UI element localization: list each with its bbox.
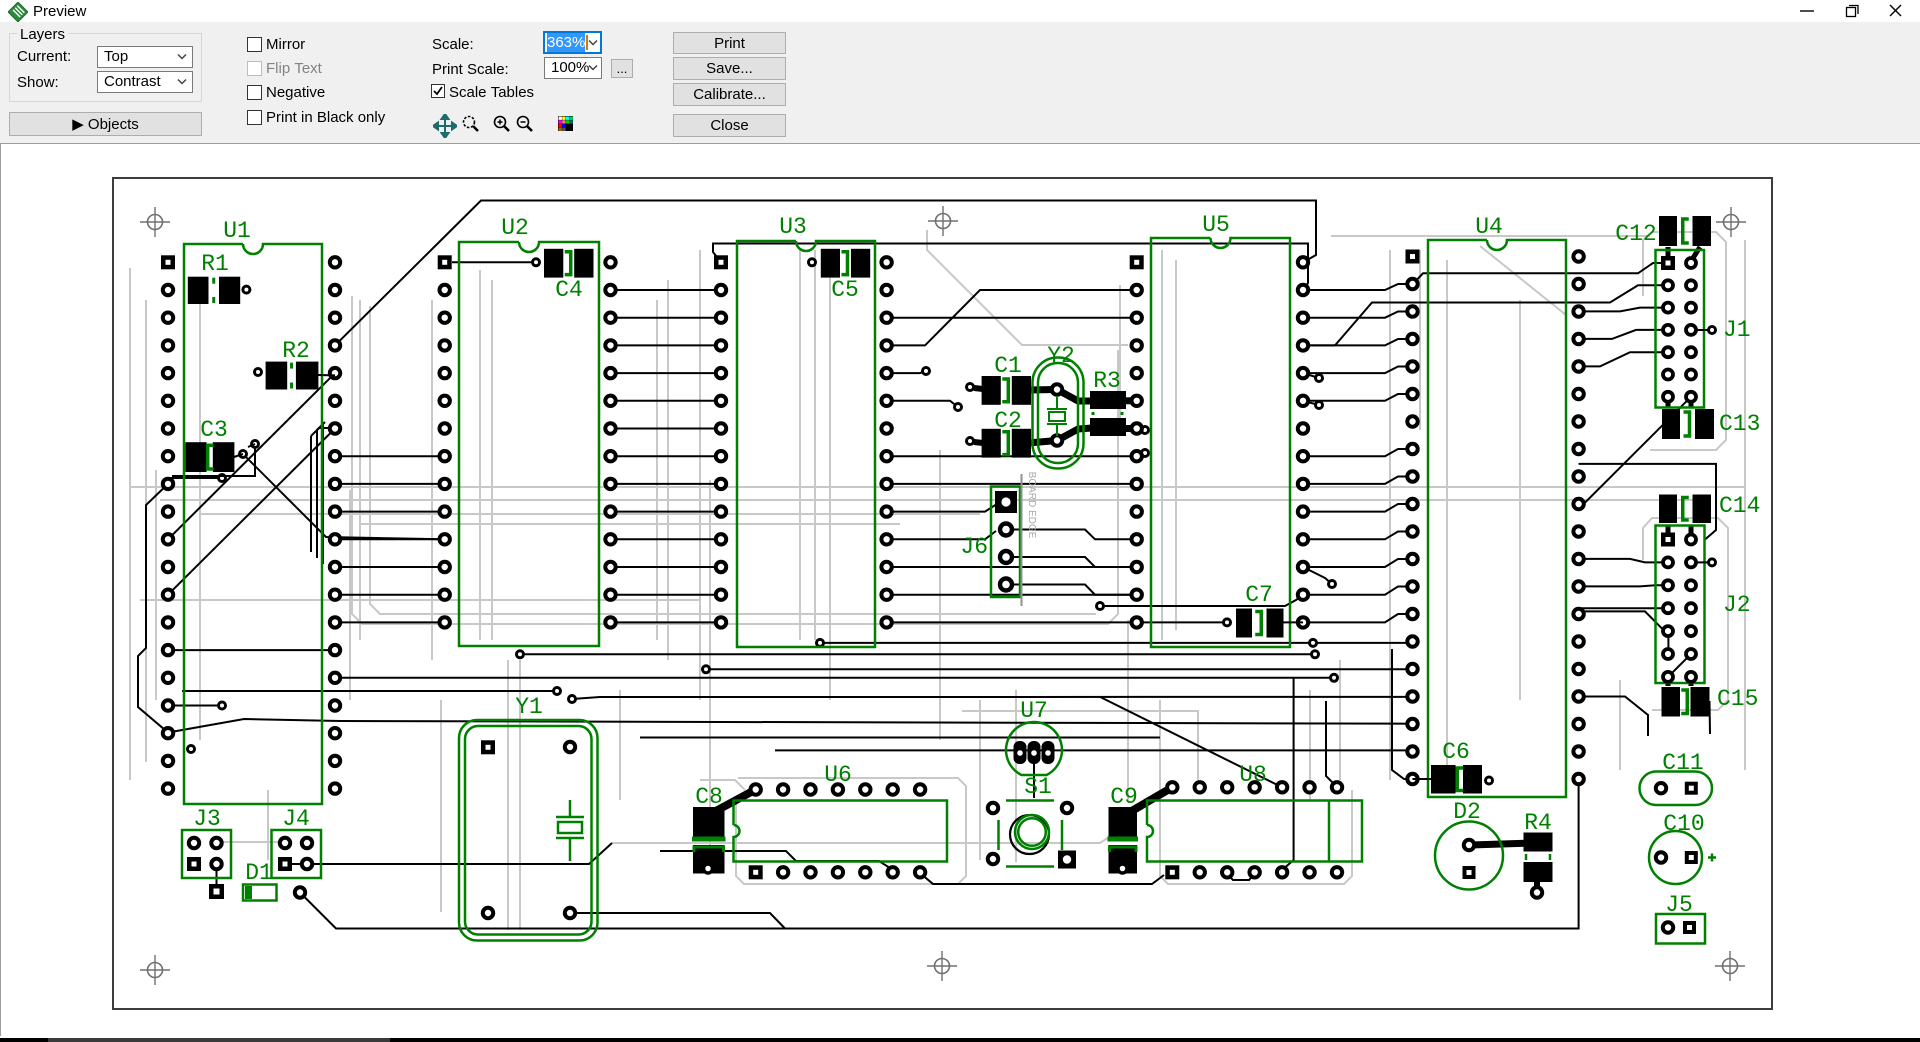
diode D2 bbox=[1435, 799, 1503, 890]
wire U8 bottom pads link bbox=[1227, 874, 1254, 880]
wire long bus row643 bbox=[817, 639, 1413, 646]
IC U6 pads bbox=[749, 784, 926, 879]
capacitor C6 bbox=[1413, 739, 1493, 794]
wire bottom layer J1 loop bbox=[1643, 232, 1726, 450]
crystal Y1 outline bbox=[459, 694, 598, 941]
svg-text:BOARD EDGE: BOARD EDGE bbox=[1026, 472, 1037, 539]
IC U8 inner divider bbox=[1328, 801, 1331, 861]
wire bottom layer J2 loop bbox=[1643, 518, 1728, 710]
connector J3 bbox=[182, 806, 231, 878]
svg-text:C6: C6 bbox=[1442, 739, 1470, 765]
connector J6 outline bbox=[960, 487, 1020, 598]
wire U3 top bus bbox=[713, 244, 1308, 291]
svg-text:C8: C8 bbox=[695, 784, 723, 810]
svg-text:J5: J5 bbox=[1665, 892, 1693, 918]
wire bottom layer U4 region verticals bbox=[1331, 236, 1650, 790]
bottom strip bbox=[0, 1036, 1920, 1038]
wire bottom layer mid horizontal bus bbox=[130, 487, 1745, 524]
wire thick C15 stubs bbox=[1668, 683, 1691, 686]
svg-text:C14: C14 bbox=[1719, 493, 1760, 519]
wire thick C14 stubs bbox=[1668, 525, 1691, 533]
wire J1 to U4 diagonal bbox=[1579, 397, 1691, 509]
svg-text:U4: U4 bbox=[1475, 214, 1503, 240]
window buttons bbox=[1795, 0, 1920, 22]
svg-text:U3: U3 bbox=[779, 214, 807, 240]
svg-text:S1: S1 bbox=[1024, 774, 1052, 800]
capacitor C4 bbox=[544, 249, 594, 303]
scale bbox=[432, 36, 474, 53]
wire bus row724 with left riser bbox=[138, 484, 1413, 733]
wire C5 stub bbox=[809, 259, 816, 266]
diode D1 bbox=[243, 860, 305, 901]
wire U1 to top bus diagonal bbox=[335, 201, 1316, 346]
wire thick C12 stubs bbox=[1668, 247, 1700, 258]
capacitor C8 bbox=[692, 784, 726, 874]
svg-text:J3: J3 bbox=[193, 806, 221, 832]
fiducial top-center bbox=[928, 206, 958, 236]
node BOARD EDGE marker bbox=[1022, 472, 1038, 606]
svg-text:R1: R1 bbox=[201, 251, 229, 277]
wire U4-J1 rows bbox=[1303, 263, 1668, 366]
svg-text:J1: J1 bbox=[1723, 317, 1751, 343]
wire bundle U2-U3 rows bbox=[611, 290, 722, 622]
wire U1 row14 link bbox=[168, 649, 335, 651]
wire bottom layer big mid loop bbox=[352, 296, 1118, 624]
capacitor C10 bbox=[1649, 811, 1716, 884]
wire bottom layer left horizontal bbox=[140, 599, 700, 601]
wire U4 left riser bbox=[1392, 649, 1413, 779]
crystal Y2 outline bbox=[1033, 343, 1084, 469]
fiducial bottom-left bbox=[140, 955, 170, 985]
connector J5 bbox=[1656, 892, 1705, 944]
wire C3 diagonal to U2 bbox=[243, 454, 445, 539]
wire bundle U5-U4 rows bbox=[1303, 284, 1413, 622]
title bar bbox=[0, 0, 1920, 22]
IC U8 pads bbox=[1165, 782, 1342, 879]
wire U6 interior bbox=[660, 851, 893, 872]
svg-text:J4: J4 bbox=[282, 806, 310, 832]
toolbar bbox=[0, 22, 1920, 144]
transistor U7 bbox=[1006, 698, 1062, 775]
wire bottom layer center verticals bbox=[927, 230, 1199, 862]
wire U7 center stub bbox=[1033, 762, 1035, 798]
wire bottom layer verticals under U5 bbox=[1162, 250, 1176, 640]
wire bus row750 bbox=[775, 749, 1413, 751]
IC U6 outline bbox=[734, 762, 948, 862]
IC U4 outline bbox=[1428, 214, 1566, 797]
wire bottom layer bottom right verticals bbox=[1160, 660, 1620, 884]
capacitor C3 bbox=[185, 417, 258, 472]
crystal Y2 symbol bbox=[1047, 396, 1067, 436]
node pad below J3 bbox=[209, 884, 224, 899]
svg-text:D1: D1 bbox=[245, 860, 273, 886]
connector J2 pads bbox=[1661, 533, 1716, 682]
wire bundle U3-U5 upper bbox=[887, 290, 1137, 345]
wire thick C9 to U8 pin1 bbox=[1130, 787, 1172, 812]
capacitor C7 bbox=[1224, 582, 1304, 638]
IC U2 pads bbox=[438, 255, 616, 627]
capacitor C1 bbox=[967, 353, 1032, 405]
svg-text:C5: C5 bbox=[831, 277, 859, 303]
wire bottom layer verticals U1-U2 bbox=[200, 300, 432, 740]
right buttons bbox=[673, 32, 786, 54]
wire U8 pin7 riser bbox=[1326, 701, 1337, 787]
wire thick C8 to U6 pin1 bbox=[714, 790, 756, 813]
wire U3-R3 row bbox=[887, 401, 962, 411]
svg-text:C3: C3 bbox=[200, 417, 228, 443]
resistor R3 bbox=[1090, 368, 1126, 436]
wire long bus row668 bbox=[703, 666, 1413, 673]
wire thick D2 to R4 bbox=[1471, 843, 1537, 889]
wire long bus row678 bbox=[335, 674, 1338, 681]
wire bus row737 bbox=[640, 737, 1160, 739]
connector J1 outline bbox=[1656, 250, 1751, 408]
wire left stubs U1 bbox=[168, 475, 226, 753]
wire bundle U3-U5 lower rows bbox=[887, 456, 1227, 622]
fiducial bottom-right bbox=[1715, 951, 1745, 981]
wire thick C13 stubs bbox=[1668, 403, 1691, 408]
connector J1 pads bbox=[1661, 256, 1716, 402]
wire U8 pin1 diagonal bbox=[1100, 697, 1282, 787]
svg-text:R2: R2 bbox=[282, 338, 310, 364]
svg-text:C15: C15 bbox=[1717, 686, 1758, 712]
wire bottom layer verticals under U3 bbox=[800, 250, 830, 700]
wire U5 side vias bbox=[1142, 373, 1323, 456]
wire D1 ground bus bbox=[300, 781, 1579, 929]
wire U5 bottom exit bbox=[1097, 595, 1304, 610]
switch S1 bbox=[988, 774, 1076, 869]
capacitor C15 bbox=[1662, 686, 1759, 717]
wire J3 stub bbox=[216, 866, 218, 892]
IC U2 outline bbox=[459, 215, 599, 646]
resistor R1 bbox=[188, 251, 250, 304]
IC U5 outline bbox=[1151, 212, 1290, 647]
svg-text:Y1: Y1 bbox=[515, 694, 543, 720]
fiducial top-right bbox=[1716, 207, 1746, 237]
wire U1 crossing diagonal bbox=[168, 373, 335, 595]
connector J2 outline bbox=[1656, 526, 1751, 684]
wire J4 bottom run bbox=[292, 843, 612, 864]
app icon bbox=[8, 2, 28, 22]
svg-text:C1: C1 bbox=[994, 353, 1022, 379]
IC U8 outline bbox=[1147, 762, 1362, 862]
board outline bbox=[113, 178, 1772, 1009]
capacitor C5 bbox=[821, 249, 870, 303]
crystal Y1 symbol bbox=[556, 800, 584, 861]
wire C3 via elbow bbox=[172, 446, 255, 476]
svg-text:C13: C13 bbox=[1719, 411, 1760, 437]
wire U6 to U8 bottom link bbox=[920, 873, 1164, 884]
toolbar icons bbox=[433, 114, 457, 138]
crystal Y2 pads bbox=[1052, 384, 1062, 445]
wire bus row697 bbox=[569, 696, 1413, 703]
svg-text:U5: U5 bbox=[1202, 212, 1230, 238]
resistor R2 bbox=[255, 338, 336, 390]
svg-text:C9: C9 bbox=[1110, 784, 1138, 810]
IC U4 pads bbox=[1406, 250, 1584, 785]
crystal Y1 pads bbox=[481, 740, 575, 918]
svg-text:J6: J6 bbox=[960, 534, 988, 560]
capacitor C9 bbox=[1108, 784, 1139, 874]
wire bottom layer right edge vertical bbox=[1744, 240, 1746, 770]
wire J6 to U5 links bbox=[1012, 530, 1137, 595]
connector J6 pads bbox=[995, 491, 1017, 591]
svg-text:J2: J2 bbox=[1723, 592, 1751, 618]
wire bottom layer bottom area bbox=[222, 711, 1198, 843]
wire Y1 bottom link bbox=[570, 913, 785, 929]
svg-text:U1: U1 bbox=[223, 218, 251, 244]
wire bottom layer left edge loop bbox=[130, 268, 156, 780]
wire long bus row654 bbox=[517, 651, 1319, 658]
connector J4 bbox=[272, 806, 322, 878]
capacitor C11 bbox=[1640, 750, 1713, 805]
capacitor C13 bbox=[1662, 409, 1760, 439]
svg-text:C7: C7 bbox=[1245, 582, 1273, 608]
Layers group box bbox=[9, 33, 202, 102]
wire U3-C1 row bbox=[887, 368, 930, 375]
IC U3 outline bbox=[737, 214, 875, 647]
svg-text:Y2: Y2 bbox=[1047, 343, 1075, 369]
wire thick Y2 to C1 and R3 bbox=[974, 388, 1137, 443]
svg-text:C4: C4 bbox=[555, 277, 583, 303]
wire C4 link bbox=[452, 259, 540, 266]
svg-text:R3: R3 bbox=[1093, 368, 1121, 394]
wire bottom layer verticals under U2 bbox=[480, 270, 492, 640]
capacitor C2 bbox=[967, 408, 1032, 458]
checkboxes bbox=[247, 37, 262, 52]
wire U4-J2 link bbox=[1579, 464, 1716, 736]
IC U3 pads bbox=[714, 255, 892, 627]
wire bottom layer U6 loop bbox=[736, 778, 966, 884]
svg-text:U7: U7 bbox=[1020, 698, 1048, 724]
fiducial top-left bbox=[140, 207, 170, 237]
wire bus row691 bbox=[182, 688, 561, 695]
wire U2 left loop bbox=[311, 422, 340, 564]
wire U8 riser bbox=[1282, 678, 1294, 870]
IC U1 pads bbox=[161, 255, 340, 794]
fiducial bottom-center bbox=[927, 951, 957, 981]
wire bundle U1-U2 rows bbox=[335, 456, 445, 622]
wire bottom layer verticals U2-U3 bbox=[657, 250, 710, 870]
svg-text:C12: C12 bbox=[1615, 221, 1656, 247]
capacitor C14 bbox=[1659, 493, 1760, 523]
svg-text:U2: U2 bbox=[501, 215, 529, 241]
svg-text:R4: R4 bbox=[1524, 810, 1552, 836]
capacitor C12 bbox=[1615, 216, 1711, 247]
wire bottom layer Y1 J3 area bbox=[268, 660, 620, 930]
IC U5 pads bbox=[1130, 255, 1309, 627]
wire via row584 bbox=[1303, 567, 1336, 588]
IC U1 outline bbox=[184, 218, 322, 804]
resistor R4 bbox=[1524, 810, 1553, 898]
